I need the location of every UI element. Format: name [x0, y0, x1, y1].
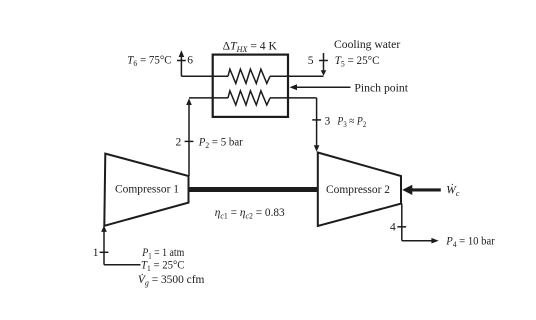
- svg-text:P4 = 10 bar: P4 = 10 bar: [445, 235, 495, 249]
- svg-text:3: 3: [325, 115, 331, 127]
- svg-text:Cooling water: Cooling water: [334, 39, 400, 51]
- svg-text:V̇g = 3500 cfm: V̇g = 3500 cfm: [138, 272, 205, 287]
- node 4 tick: [397, 226, 406, 228]
- wire: node 4 outlet vertical: [401, 204, 403, 241]
- node 2 arrowhead (up): [186, 98, 192, 105]
- wire: air from node 2 into HX (horizontal): [189, 97, 228, 99]
- compressor C2 body: [318, 153, 401, 227]
- node 3 tick: [312, 119, 321, 121]
- wire: node 1 horizontal: [104, 264, 141, 266]
- node 6 arrowhead (up): [179, 50, 185, 57]
- svg-text:1: 1: [93, 247, 99, 259]
- svg-text:6: 6: [187, 54, 193, 66]
- svg-text:ΔTHX = 4 K: ΔTHX = 4 K: [223, 40, 278, 54]
- node 3 arrowhead (down): [314, 145, 320, 152]
- svg-text:Compressor 1: Compressor 1: [115, 184, 179, 196]
- wire: node 1 inlet vertical: [103, 231, 105, 265]
- wire: node 3 vertical (into compressor 2): [316, 98, 318, 146]
- node 5 arrowhead (down): [321, 70, 327, 75]
- heat exchanger coil (cooling water, upper zigzag): [228, 69, 270, 83]
- compressor C1 body: [104, 154, 188, 226]
- shaft between compressors: [189, 187, 318, 192]
- svg-text:5: 5: [308, 55, 314, 67]
- node 1 arrowhead (up): [101, 225, 107, 232]
- svg-text:P3 ≈ P2: P3 ≈ P2: [337, 115, 367, 128]
- svg-text:Pinch point: Pinch point: [354, 83, 408, 95]
- node 2 tick: [185, 140, 194, 142]
- svg-text:P2 = 5 bar: P2 = 5 bar: [198, 137, 243, 151]
- wire: cooling water inlet horizontal from HX: [270, 75, 324, 77]
- wire: cooling water outlet horizontal to HX: [181, 75, 228, 77]
- svg-text:4: 4: [390, 222, 396, 234]
- pinch point arrow: [296, 86, 351, 88]
- wire: air from HX to node 3 (horizontal): [270, 97, 317, 99]
- node 6 tick: [177, 60, 186, 62]
- svg-text:Compressor 2: Compressor 2: [326, 184, 390, 196]
- wire: node 4 horizontal with arrow: [402, 240, 433, 242]
- Wc input arrow (thick): [412, 188, 441, 191]
- wire: node 2 vertical (compressor 1 outlet): [188, 104, 190, 176]
- wire: cooling water outlet line 6 vertical: [180, 56, 182, 77]
- node 1 tick: [100, 251, 109, 253]
- heat exchanger box: [213, 55, 288, 117]
- svg-text:2: 2: [176, 137, 182, 149]
- wire: cooling water inlet line 5 vertical: [323, 53, 325, 72]
- node 5 tick: [319, 60, 328, 62]
- heat exchanger coil (air, lower zigzag): [228, 91, 270, 105]
